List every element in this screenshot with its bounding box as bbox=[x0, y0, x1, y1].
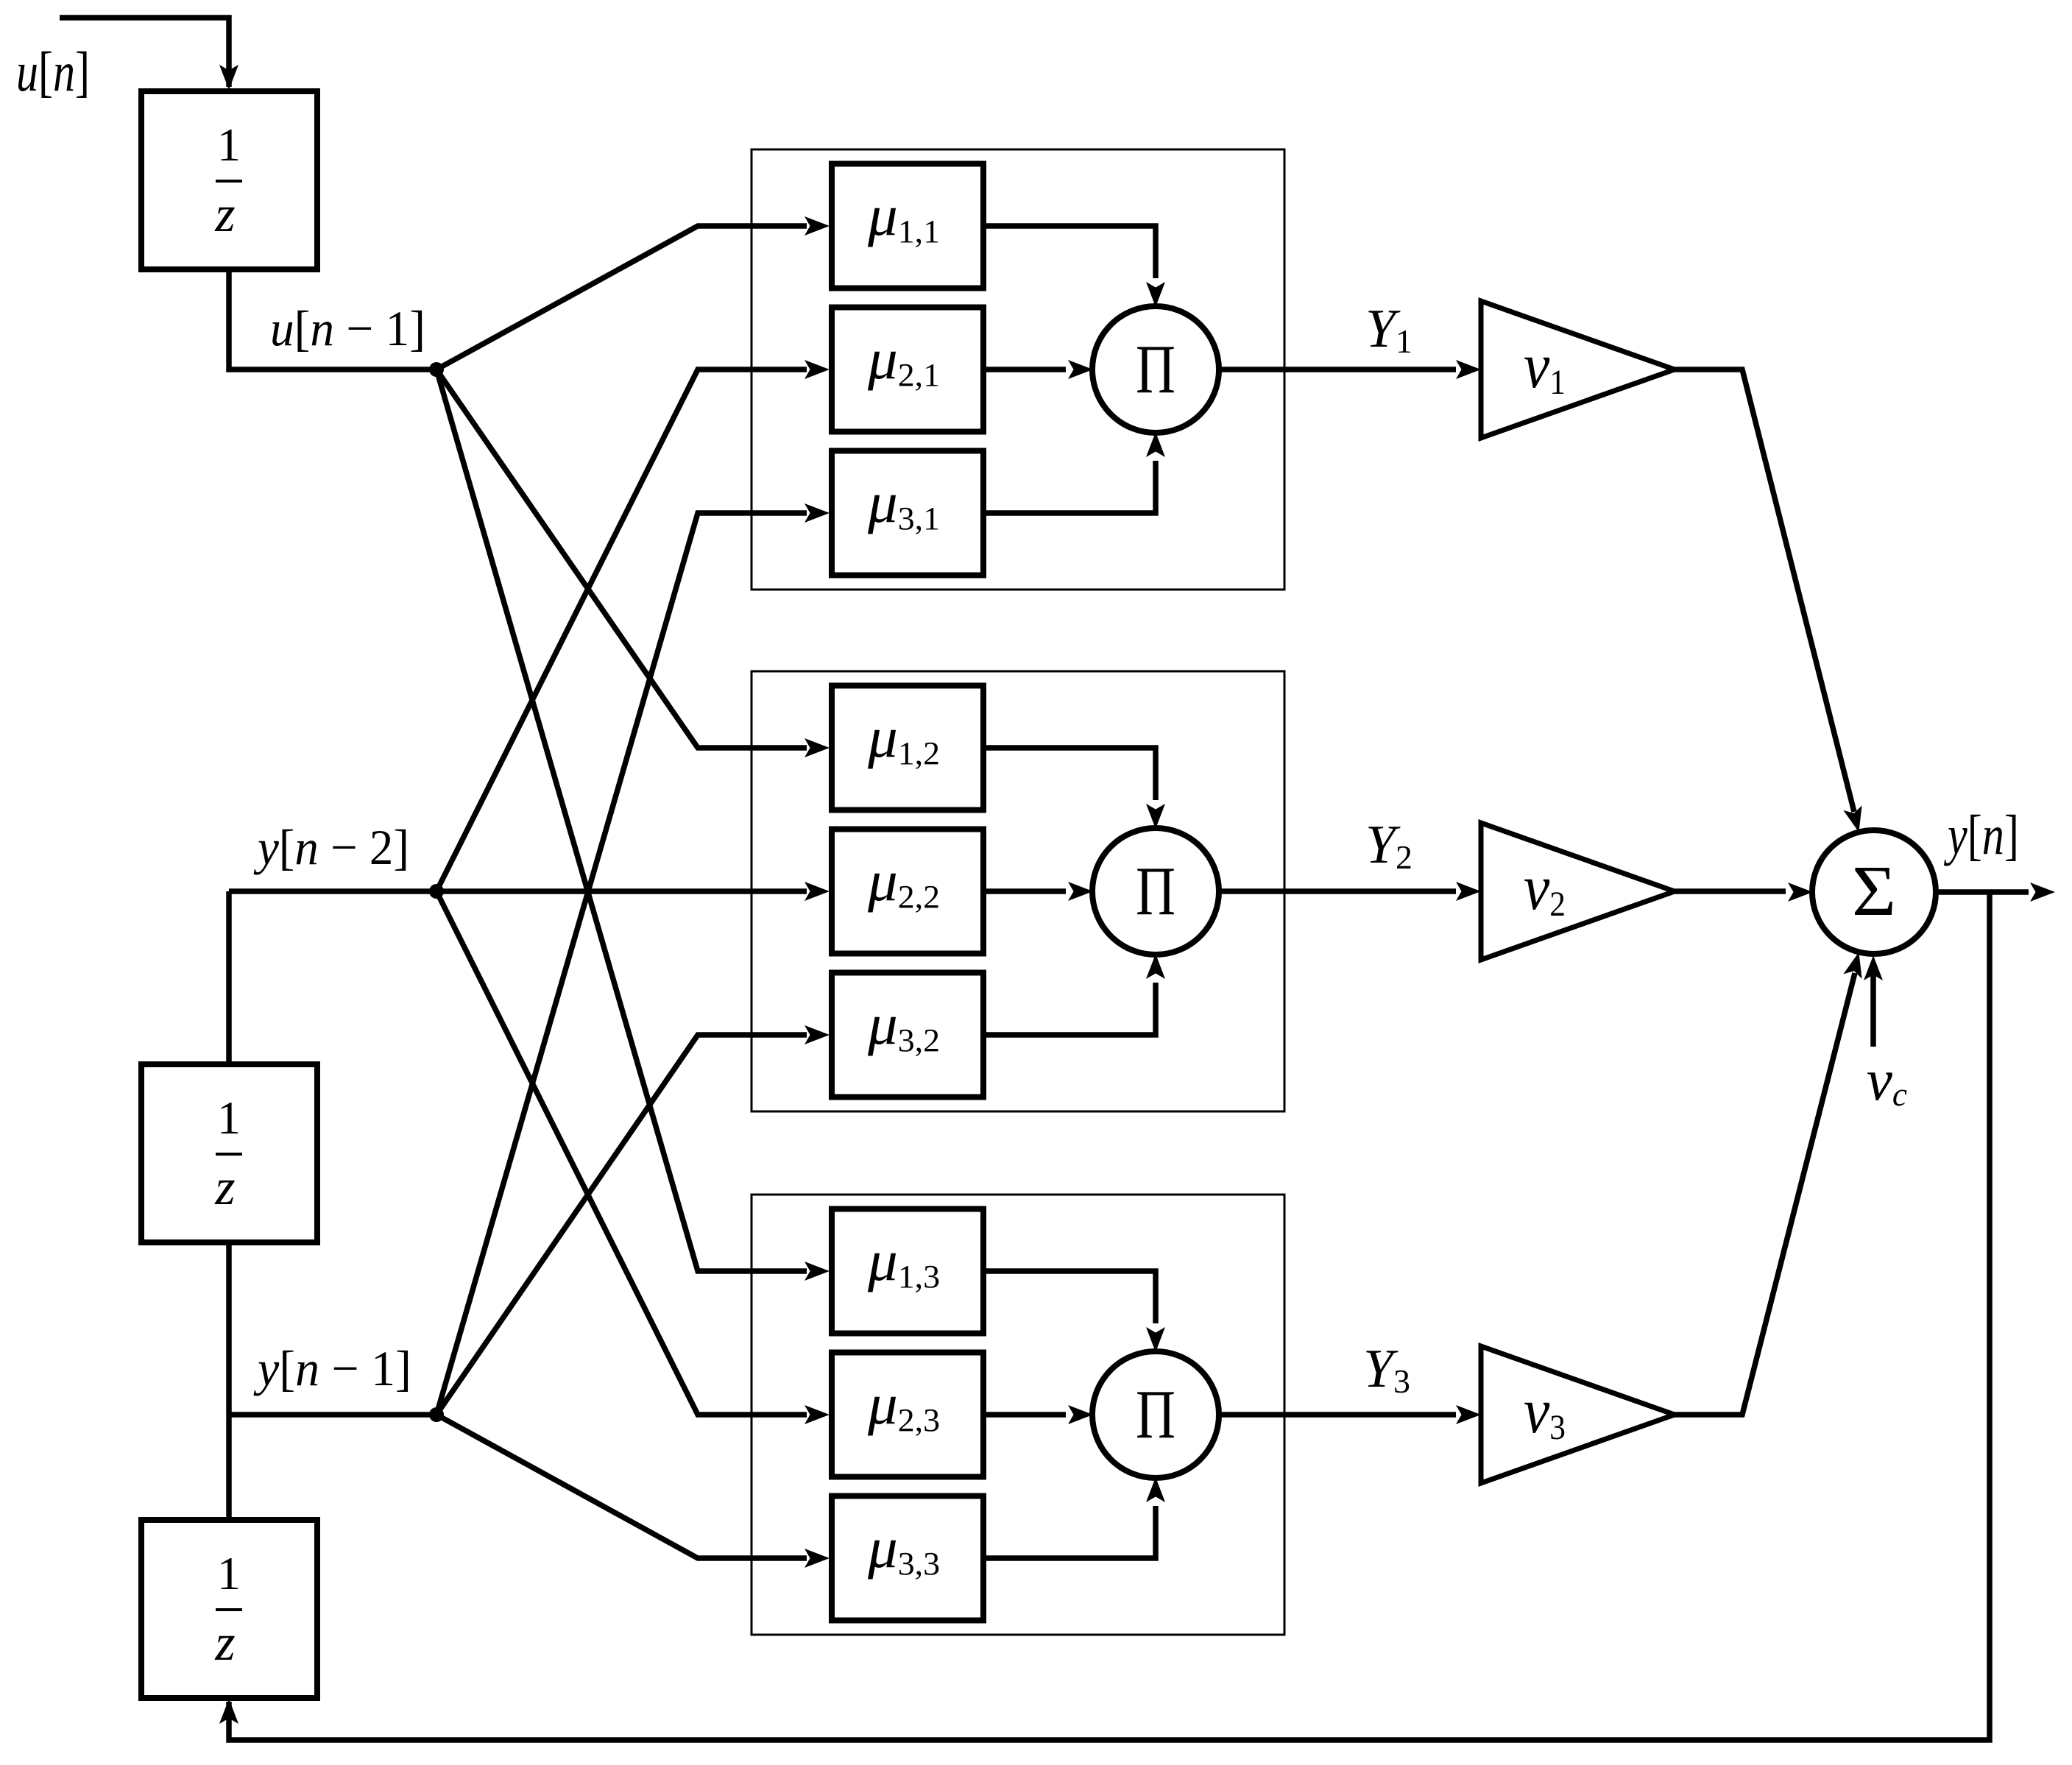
svg-text:u[n − 1]: u[n − 1] bbox=[270, 300, 425, 356]
svg-text:1: 1 bbox=[217, 1547, 241, 1599]
svg-text:Π: Π bbox=[1136, 1376, 1175, 1453]
svg-text:z: z bbox=[214, 1159, 235, 1216]
svg-text:z: z bbox=[214, 1615, 235, 1672]
svg-text:z: z bbox=[214, 186, 235, 243]
svg-text:1: 1 bbox=[217, 119, 241, 171]
svg-text:y[n − 2]: y[n − 2] bbox=[253, 819, 409, 875]
svg-text:Π: Π bbox=[1136, 853, 1175, 930]
svg-text:Σ: Σ bbox=[1852, 852, 1896, 931]
svg-text:y[n − 1]: y[n − 1] bbox=[253, 1340, 411, 1396]
svg-text:u[n]: u[n] bbox=[16, 41, 90, 103]
svg-text:Π: Π bbox=[1136, 331, 1175, 408]
svg-text:y[n]: y[n] bbox=[1943, 804, 2019, 866]
svg-text:1: 1 bbox=[217, 1092, 241, 1144]
